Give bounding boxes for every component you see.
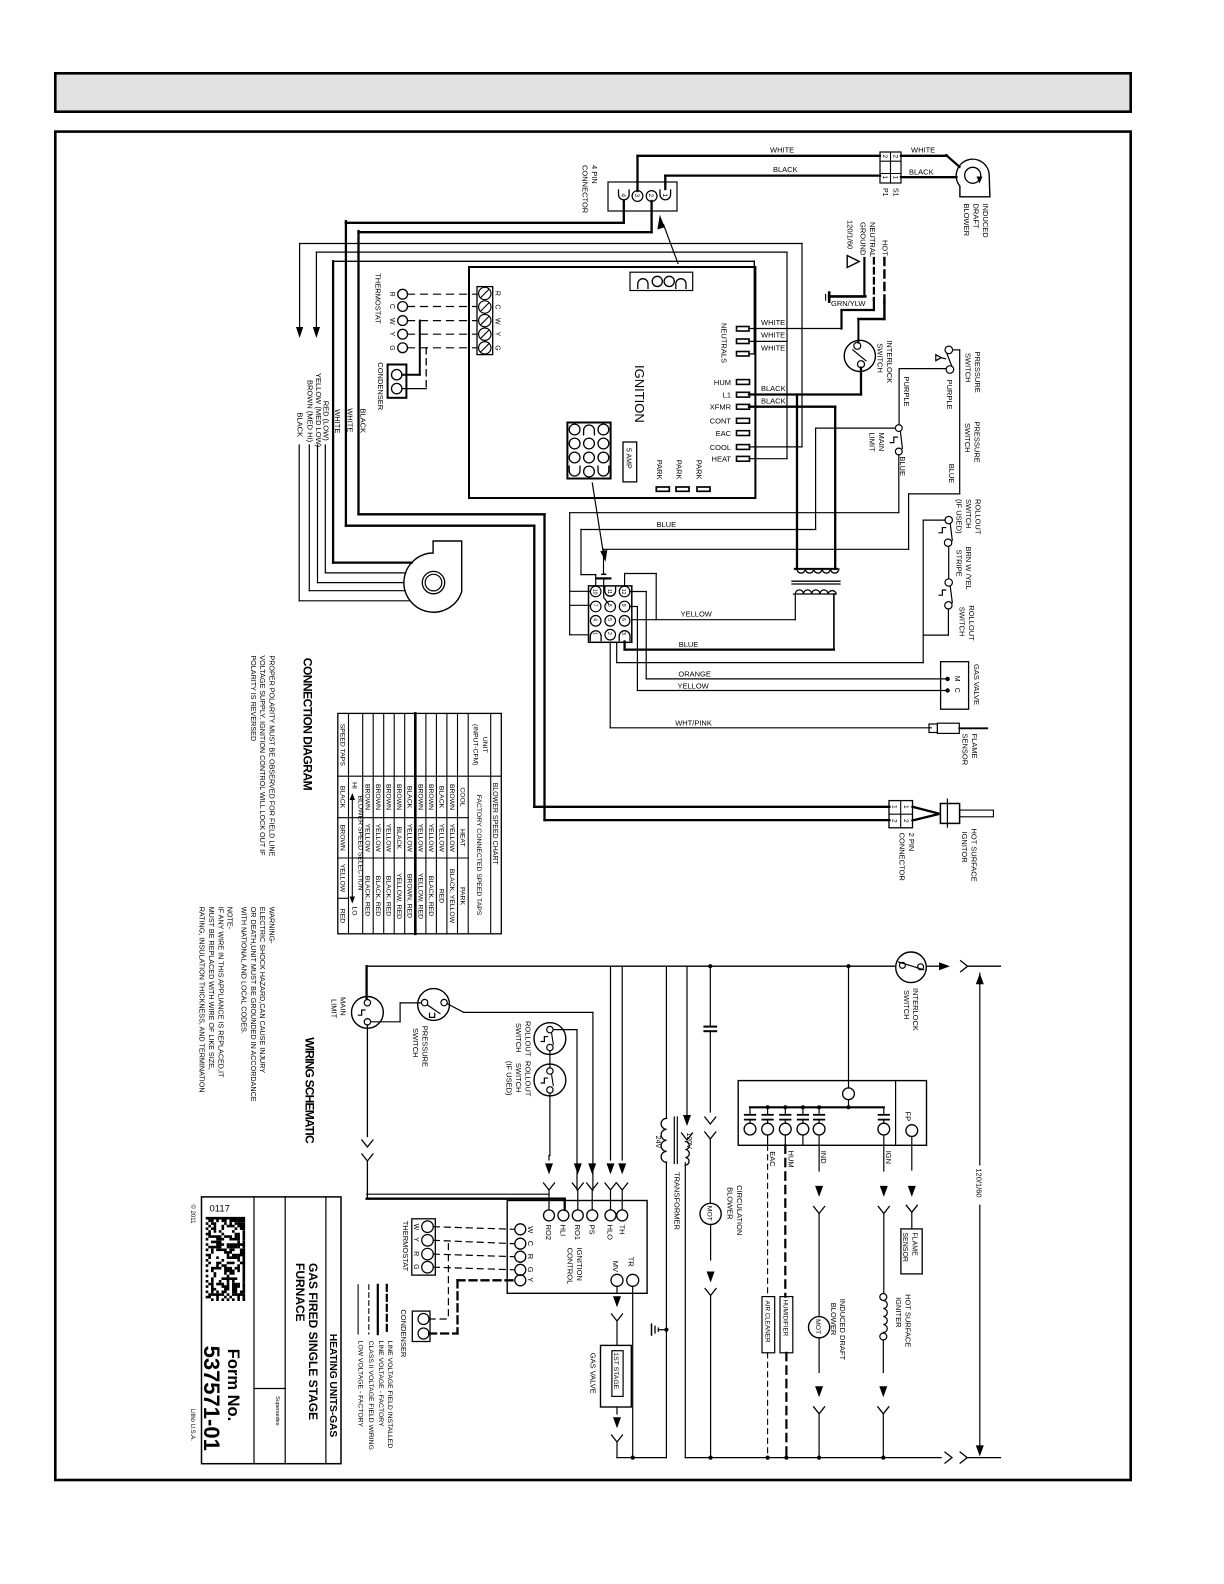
- svg-text:YELLOW: YELLOW: [678, 681, 710, 690]
- svg-text:CONDENSER: CONDENSER: [399, 1309, 408, 1358]
- svg-text:CONNECTOR: CONNECTOR: [581, 165, 590, 214]
- svg-text:SPEED TAPS: SPEED TAPS: [338, 724, 345, 767]
- svg-text:DRAFT: DRAFT: [971, 204, 980, 229]
- svg-text:YELLOW: YELLOW: [384, 824, 391, 853]
- svg-text:LO: LO: [350, 906, 357, 915]
- svg-text:BLOWER: BLOWER: [829, 1303, 838, 1336]
- svg-text:RED: RED: [437, 889, 444, 903]
- svg-text:1: 1: [661, 194, 668, 198]
- svg-text:LOW VOLTAGE - FACTORY: LOW VOLTAGE - FACTORY: [356, 1341, 363, 1428]
- svg-text:BLOWER SPEED SELECTION: BLOWER SPEED SELECTION: [356, 796, 363, 891]
- svg-text:YELLOW, RED: YELLOW, RED: [395, 873, 402, 919]
- svg-text:SWITCH: SWITCH: [902, 990, 911, 1020]
- svg-text:12: 12: [620, 589, 626, 595]
- svg-text:BRN W /YEL: BRN W /YEL: [964, 547, 973, 590]
- svg-text:BLACK: BLACK: [359, 409, 368, 434]
- svg-text:INTERLOCK: INTERLOCK: [885, 340, 894, 383]
- svg-text:5: 5: [606, 618, 612, 621]
- svg-text:M: M: [953, 676, 960, 682]
- svg-text:2: 2: [892, 155, 899, 159]
- svg-text:11: 11: [606, 589, 612, 594]
- svg-text:2: 2: [902, 819, 909, 823]
- svg-text:G: G: [412, 1264, 419, 1269]
- svg-text:GAS VALVE: GAS VALVE: [589, 1353, 598, 1394]
- svg-text:YELLOW: YELLOW: [363, 824, 370, 853]
- svg-text:YELLOW: YELLOW: [405, 824, 412, 853]
- svg-text:WHITE: WHITE: [761, 331, 785, 340]
- svg-text:CONT: CONT: [710, 417, 732, 426]
- svg-text:5 AMP: 5 AMP: [625, 448, 632, 469]
- svg-text:4: 4: [591, 618, 597, 621]
- svg-text:2 PIN: 2 PIN: [907, 833, 916, 852]
- svg-text:BLACK: BLACK: [295, 413, 304, 438]
- svg-text:EAC: EAC: [768, 1151, 777, 1167]
- svg-text:ORANGE: ORANGE: [678, 670, 711, 679]
- svg-text:FLAME: FLAME: [911, 1232, 918, 1256]
- svg-text:BLUE: BLUE: [898, 456, 907, 476]
- svg-text:PS: PS: [587, 1225, 596, 1235]
- svg-text:HOT SURFACE: HOT SURFACE: [970, 829, 979, 882]
- svg-text:IGNITION: IGNITION: [575, 1248, 584, 1281]
- svg-text:FP: FP: [903, 1112, 912, 1122]
- svg-text:BROWN: BROWN: [416, 784, 423, 810]
- svg-text:BLUE: BLUE: [679, 640, 699, 649]
- svg-text:(IF USED): (IF USED): [505, 1061, 514, 1096]
- svg-text:MAIN: MAIN: [339, 997, 348, 1016]
- svg-text:BLACK, RED: BLACK, RED: [374, 876, 381, 917]
- svg-text:IND: IND: [819, 1151, 828, 1165]
- svg-text:G: G: [526, 1267, 535, 1273]
- svg-text:SWITCH: SWITCH: [958, 607, 967, 637]
- svg-text:SWITCH: SWITCH: [514, 1063, 523, 1093]
- svg-text:L1: L1: [723, 391, 731, 400]
- svg-text:NOTE-: NOTE-: [226, 907, 235, 930]
- svg-text:HUMIDIFIER: HUMIDIFIER: [781, 1300, 788, 1337]
- svg-text:SWITCH: SWITCH: [963, 423, 972, 453]
- svg-text:BROWN: BROWN: [338, 825, 345, 851]
- svg-text:ROLLOUT: ROLLOUT: [523, 1021, 532, 1057]
- svg-text:INDUCED: INDUCED: [981, 204, 990, 239]
- svg-text:SENSOR: SENSOR: [961, 734, 970, 766]
- svg-text:BLUE: BLUE: [657, 520, 677, 529]
- svg-text:PRESSURE: PRESSURE: [972, 422, 981, 463]
- svg-text:2: 2: [606, 632, 612, 635]
- svg-text:IF ANY WIRE IN THIS APPLIANCE: IF ANY WIRE IN THIS APPLIANCE IS REPLACE…: [216, 907, 225, 1078]
- svg-text:BROWN: BROWN: [363, 784, 370, 810]
- svg-text:BROWN: BROWN: [395, 784, 402, 810]
- svg-text:C: C: [494, 304, 501, 309]
- svg-text:BROWN: BROWN: [427, 784, 434, 810]
- svg-text:C: C: [953, 688, 960, 693]
- svg-text:PRESSURE: PRESSURE: [421, 1026, 430, 1067]
- svg-text:S1: S1: [891, 188, 898, 197]
- svg-text:G: G: [388, 345, 395, 350]
- svg-text:P1: P1: [881, 188, 888, 197]
- svg-text:SWITCH: SWITCH: [514, 1023, 523, 1053]
- svg-text:MV: MV: [611, 1261, 620, 1272]
- svg-text:10: 10: [591, 589, 597, 595]
- svg-text:7: 7: [591, 604, 597, 607]
- svg-text:MOT: MOT: [814, 1319, 821, 1334]
- svg-text:R: R: [412, 1251, 419, 1256]
- svg-text:Form No.: Form No.: [224, 1349, 242, 1421]
- svg-text:0117: 0117: [210, 1204, 230, 1215]
- svg-text:RED: RED: [338, 909, 345, 923]
- svg-text:XFMR: XFMR: [710, 403, 732, 412]
- svg-text:6: 6: [620, 618, 626, 621]
- svg-text:BLACK: BLACK: [909, 168, 934, 177]
- svg-text:HEAT: HEAT: [712, 455, 732, 464]
- svg-text:NEUTRAL: NEUTRAL: [868, 222, 877, 257]
- svg-text:HEAT: HEAT: [458, 829, 465, 847]
- svg-text:HLO: HLO: [606, 1225, 615, 1241]
- svg-text:SWITCH: SWITCH: [964, 499, 973, 529]
- svg-text:W: W: [412, 1224, 419, 1231]
- svg-text:C: C: [388, 304, 395, 309]
- svg-text:HUM: HUM: [787, 1151, 796, 1168]
- svg-text:2: 2: [891, 819, 898, 823]
- svg-text:UNIT: UNIT: [481, 737, 488, 753]
- svg-text:BLACK: BLACK: [338, 786, 345, 809]
- svg-text:(INPUT-CFM): (INPUT-CFM): [472, 724, 479, 766]
- svg-text:CONDENSER: CONDENSER: [376, 362, 385, 411]
- svg-text:CIRCULATION: CIRCULATION: [735, 1185, 744, 1235]
- svg-text:W: W: [526, 1226, 535, 1234]
- svg-text:BLACK, RED: BLACK, RED: [384, 876, 391, 917]
- svg-text:WHITE: WHITE: [761, 318, 785, 327]
- svg-text:INTERLOCK: INTERLOCK: [911, 988, 920, 1031]
- svg-text:BLOWER SPEED CHART: BLOWER SPEED CHART: [491, 783, 498, 866]
- svg-text:YELLOW: YELLOW: [427, 824, 434, 853]
- svg-text:ROLLOUT: ROLLOUT: [967, 605, 976, 641]
- svg-text:YELLOW: YELLOW: [681, 610, 713, 619]
- svg-text:BLOWER: BLOWER: [726, 1187, 735, 1220]
- svg-text:PARK: PARK: [458, 887, 465, 905]
- svg-text:YELLOW: YELLOW: [448, 824, 455, 853]
- svg-text:MUST BE REPLACED WITH WIRE OF: MUST BE REPLACED WITH WIRE OF LIKE SIZE,: [207, 907, 216, 1070]
- svg-text:(IF USED): (IF USED): [955, 499, 964, 534]
- svg-text:BROWN, RED: BROWN, RED: [405, 874, 412, 918]
- svg-text:WHT/PINK: WHT/PINK: [675, 718, 712, 727]
- svg-text:TH: TH: [617, 1225, 626, 1235]
- svg-text:BROWN: BROWN: [384, 784, 391, 810]
- svg-text:BROWN: BROWN: [448, 784, 455, 810]
- svg-text:COOL: COOL: [710, 443, 731, 452]
- svg-text:YELLOW: YELLOW: [374, 824, 381, 853]
- svg-text:YELLOW, RED: YELLOW, RED: [416, 873, 423, 919]
- svg-text:PURPLE: PURPLE: [945, 380, 954, 410]
- svg-text:4 PIN: 4 PIN: [590, 165, 599, 184]
- svg-text:TRANSFORMER: TRANSFORMER: [673, 1172, 682, 1231]
- svg-text:120/1/60: 120/1/60: [974, 1168, 983, 1197]
- svg-text:24V: 24V: [654, 1136, 661, 1149]
- svg-text:ROLLOUT: ROLLOUT: [974, 499, 983, 535]
- svg-text:HUM: HUM: [714, 378, 731, 387]
- svg-text:2: 2: [881, 155, 888, 159]
- svg-text:PRESSURE: PRESSURE: [973, 352, 982, 393]
- svg-text:CONNECTOR: CONNECTOR: [898, 833, 907, 882]
- svg-text:TR: TR: [627, 1257, 636, 1268]
- svg-text:9: 9: [620, 604, 626, 607]
- svg-text:G: G: [494, 345, 501, 350]
- svg-text:WHITE: WHITE: [761, 343, 785, 352]
- svg-text:WARNING-: WARNING-: [268, 907, 277, 944]
- svg-text:1: 1: [881, 176, 888, 180]
- svg-text:© 2011: © 2011: [189, 1205, 196, 1225]
- svg-text:BLACK: BLACK: [761, 396, 786, 405]
- svg-text:PARK: PARK: [675, 460, 684, 480]
- svg-text:IGNITION: IGNITION: [632, 365, 647, 423]
- svg-text:YELLOW (MED LOW): YELLOW (MED LOW): [314, 373, 323, 448]
- svg-text:3: 3: [620, 632, 626, 635]
- svg-text:SWITCH: SWITCH: [875, 343, 884, 373]
- svg-text:BLACK: BLACK: [761, 384, 786, 393]
- svg-text:THERMOSTAT: THERMOSTAT: [401, 1221, 410, 1272]
- svg-text:BLACK: BLACK: [437, 786, 444, 809]
- svg-text:Y: Y: [388, 332, 395, 337]
- svg-text:IGN: IGN: [884, 1151, 893, 1164]
- svg-text:STRIPE: STRIPE: [954, 550, 963, 577]
- svg-text:Y: Y: [412, 1237, 419, 1242]
- svg-text:R: R: [388, 292, 395, 297]
- svg-text:Litho U.S.A.: Litho U.S.A.: [189, 1409, 195, 1441]
- svg-text:Y: Y: [526, 1277, 535, 1282]
- svg-text:GAS FIRED SINGLE STAGE: GAS FIRED SINGLE STAGE: [306, 1263, 320, 1420]
- svg-text:BLACK: BLACK: [405, 786, 412, 809]
- svg-text:GRN/YLW: GRN/YLW: [831, 299, 866, 308]
- svg-text:1ST STAGE: 1ST STAGE: [612, 1352, 619, 1389]
- svg-text:CONTROL: CONTROL: [566, 1248, 575, 1285]
- svg-text:WHITE: WHITE: [770, 146, 794, 155]
- svg-text:LIMIT: LIMIT: [868, 433, 877, 453]
- svg-text:FLAME: FLAME: [970, 734, 979, 759]
- svg-text:FURNACE: FURNACE: [293, 1263, 307, 1322]
- svg-text:THERMOSTAT: THERMOSTAT: [374, 273, 383, 324]
- svg-text:BROWN: BROWN: [374, 784, 381, 810]
- svg-text:3: 3: [633, 194, 640, 198]
- svg-text:120/1/60: 120/1/60: [846, 220, 855, 249]
- svg-text:2: 2: [647, 194, 654, 198]
- svg-text:1: 1: [891, 805, 898, 809]
- svg-text:537571-01: 537571-01: [199, 1346, 224, 1451]
- svg-text:Y: Y: [494, 332, 501, 337]
- svg-text:SWITCH: SWITCH: [964, 353, 973, 383]
- svg-text:RO2: RO2: [544, 1225, 553, 1240]
- svg-text:FACTORY CONNECTED SPEED TAPS: FACTORY CONNECTED SPEED TAPS: [475, 795, 482, 916]
- svg-text:ELECTRIC SHOCK HAZARD,CAN CAUS: ELECTRIC SHOCK HAZARD,CAN CAUSE INJURY: [258, 907, 267, 1074]
- svg-text:BROWN (MED HI): BROWN (MED HI): [306, 380, 315, 443]
- svg-text:GAS VALVE: GAS VALVE: [972, 664, 981, 705]
- svg-text:INDUCED DRAFT: INDUCED DRAFT: [838, 1299, 847, 1361]
- svg-text:GROUND: GROUND: [858, 222, 867, 256]
- svg-text:LINE VOLTAGE - FACTORY: LINE VOLTAGE - FACTORY: [377, 1341, 384, 1427]
- svg-text:BLACK: BLACK: [773, 165, 798, 174]
- svg-text:VOLTAGE SUPPLY. IGNITION CONT: VOLTAGE SUPPLY. IGNITION CONTROL WILL LO…: [258, 655, 267, 856]
- svg-text:OR DEATH,UNIT MUST BE GROUNDED: OR DEATH,UNIT MUST BE GROUNDED IN ACCORD…: [249, 907, 258, 1102]
- svg-text:SENSOR: SENSOR: [901, 1232, 908, 1262]
- svg-text:POLARITY IS REVERSED: POLARITY IS REVERSED: [249, 655, 258, 741]
- svg-text:HI: HI: [350, 782, 357, 789]
- svg-text:YELLOW: YELLOW: [338, 864, 345, 893]
- svg-text:HOT: HOT: [881, 240, 890, 256]
- svg-text:IGNITER: IGNITER: [894, 1297, 903, 1328]
- svg-text:ROLLOUT: ROLLOUT: [523, 1061, 532, 1097]
- svg-text:W: W: [388, 318, 395, 325]
- svg-text:C: C: [526, 1241, 535, 1247]
- svg-text:WHITE: WHITE: [333, 409, 342, 433]
- svg-text:COOL: COOL: [458, 787, 465, 806]
- svg-text:Supersedes: Supersedes: [274, 1396, 280, 1426]
- svg-text:PARK: PARK: [655, 460, 664, 480]
- svg-text:W: W: [494, 318, 501, 325]
- svg-text:BLACK, YELLOW: BLACK, YELLOW: [448, 869, 455, 924]
- svg-text:BLACK, RED: BLACK, RED: [363, 876, 370, 917]
- svg-text:LIMIT: LIMIT: [330, 999, 339, 1019]
- svg-text:BLOWER: BLOWER: [962, 204, 971, 237]
- svg-text:RED (LOW): RED (LOW): [322, 401, 331, 442]
- svg-text:HOT SURFACE: HOT SURFACE: [903, 1294, 912, 1347]
- svg-text:RO1: RO1: [573, 1225, 582, 1240]
- svg-text:HLI: HLI: [559, 1225, 568, 1237]
- svg-text:R: R: [526, 1254, 535, 1260]
- svg-text:RATING, INSULATION THICKNESS,: RATING, INSULATION THICKNESS, AND TERMIN…: [198, 907, 207, 1093]
- svg-text:PROPER POLARITY MUST BE OBSERV: PROPER POLARITY MUST BE OBSERVED FOR FIE…: [268, 655, 277, 856]
- svg-text:YELLOW: YELLOW: [416, 824, 423, 853]
- svg-text:MOT: MOT: [705, 1206, 712, 1221]
- svg-text:IGNITOR: IGNITOR: [960, 832, 969, 864]
- svg-text:CLASS II VOLTAGE FIELD WIRING: CLASS II VOLTAGE FIELD WIRING: [367, 1341, 374, 1450]
- svg-text:WITH NATIONAL AND LOCAL CODES.: WITH NATIONAL AND LOCAL CODES.: [240, 907, 249, 1034]
- svg-text:8: 8: [606, 604, 612, 607]
- svg-text:1: 1: [892, 176, 899, 180]
- svg-text:BLUE: BLUE: [947, 464, 956, 484]
- svg-text:YELLOW: YELLOW: [437, 824, 444, 853]
- svg-text:LINE VOLTAGE FIELD INSTALLED: LINE VOLTAGE FIELD INSTALLED: [386, 1341, 393, 1449]
- svg-text:NEUTRALS: NEUTRALS: [720, 323, 729, 363]
- svg-text:BLACK, RED: BLACK, RED: [427, 876, 434, 917]
- svg-text:CONNECTION DIAGRAM: CONNECTION DIAGRAM: [301, 658, 315, 791]
- svg-text:120V: 120V: [685, 1133, 692, 1150]
- svg-text:SWITCH: SWITCH: [411, 1028, 420, 1058]
- svg-text:BLACK: BLACK: [395, 827, 402, 850]
- svg-text:PURPLE: PURPLE: [902, 377, 911, 407]
- svg-text:1: 1: [902, 805, 909, 809]
- svg-text:PARK: PARK: [694, 460, 703, 480]
- svg-text:WIRING SCHEMATIC: WIRING SCHEMATIC: [303, 1037, 317, 1144]
- svg-text:R: R: [494, 291, 501, 296]
- svg-text:MAIN: MAIN: [877, 433, 886, 452]
- svg-text:4: 4: [620, 194, 627, 198]
- svg-text:HEATING UNITS-GAS: HEATING UNITS-GAS: [327, 1334, 338, 1438]
- svg-text:WHITE: WHITE: [911, 146, 935, 155]
- svg-text:1: 1: [591, 632, 597, 635]
- svg-text:EAC: EAC: [716, 429, 732, 438]
- svg-text:AIR CLEANER: AIR CLEANER: [763, 1301, 770, 1343]
